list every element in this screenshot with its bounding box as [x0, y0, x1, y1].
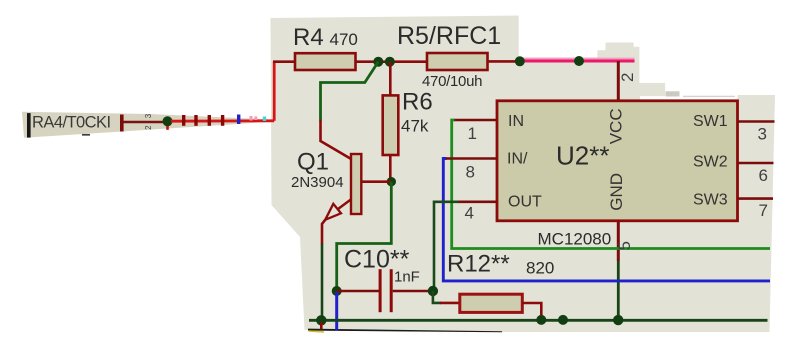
svg-text:Q1: Q1: [297, 149, 329, 176]
pin stub 6: [738, 162, 774, 165]
white mask strip above IC top right: [640, 96, 738, 99]
svg-text:R12**: R12**: [447, 251, 510, 278]
wire green from node A to Q1 collector: [321, 62, 379, 121]
wire red to R12: [440, 302, 461, 305]
svg-text:2N3904: 2N3904: [291, 174, 344, 191]
resistor R4: [295, 53, 356, 70]
cyan wire stub tick: [263, 117, 266, 122]
capacitor C10 plate 1: [379, 269, 382, 312]
wire pink VCC net: [520, 60, 635, 63]
svg-text:SW3: SW3: [693, 192, 728, 209]
wire to R4 left: [273, 60, 296, 63]
schematic sheet background region: [271, 16, 776, 333]
pin stub 7: [738, 197, 774, 200]
ghost smudge remnants: [666, 92, 680, 97]
svg-text:820: 820: [526, 259, 554, 278]
svg-text:1nF: 1nF: [394, 269, 420, 286]
wire stub tick 3: [208, 115, 211, 126]
capacitor C10 plate 2: [390, 269, 393, 312]
pin stub 4: [458, 201, 497, 204]
svg-text:R4: R4: [293, 24, 324, 51]
svg-text:5: 5: [615, 241, 634, 250]
wire to R12 left: [433, 291, 441, 303]
sliver sheet wedge (left): [22, 112, 268, 138]
Q1 emitter arrow: [325, 204, 341, 220]
Q1 emitter line: [336, 199, 352, 211]
svg-text:3: 3: [144, 113, 153, 118]
svg-text:U2**: U2**: [556, 141, 609, 171]
node junction R12 bottom: [536, 315, 546, 325]
wire blue below C10 left: [335, 292, 338, 331]
wire pink highlight fringe: [520, 58, 635, 60]
wire bright red on sliver: [171, 119, 274, 122]
wire green GND down: [617, 261, 620, 320]
blue wire stub tick: [237, 115, 240, 125]
pink wire stub tick 2: [254, 117, 257, 121]
svg-text:R6: R6: [402, 89, 433, 116]
node junction on sliver: [163, 116, 173, 126]
wire dark red on sliver: [124, 121, 165, 124]
wire blue IN/ net: [443, 159, 770, 281]
wire R5 right: [488, 60, 520, 63]
bottom yellow tick: [309, 331, 325, 332]
svg-text:OUT: OUT: [508, 194, 542, 211]
svg-text:IN: IN: [508, 113, 524, 130]
bottom black edge line: [308, 329, 502, 333]
node junction GND bus: [613, 315, 623, 325]
wire ground bus bottom: [309, 319, 768, 322]
pin stub 3: [738, 120, 775, 123]
svg-text:MC12080: MC12080: [538, 230, 612, 249]
IC U2 body: [497, 101, 738, 221]
wire C10 left: [337, 290, 379, 293]
red stub below ground bus: [320, 322, 323, 329]
red stub below sliver node: [166, 126, 169, 130]
node junction base: [387, 177, 396, 186]
pin bar on PIC pin: [120, 115, 124, 132]
node junction on pink 2: [574, 56, 584, 66]
node junction C10 right: [428, 286, 438, 296]
svg-text:VCC: VCC: [607, 108, 626, 144]
svg-text:470/10uh: 470/10uh: [422, 73, 482, 90]
wire stub tick 4: [221, 115, 224, 126]
wire C10 right: [393, 290, 433, 293]
svg-text:SW2: SW2: [693, 154, 728, 171]
svg-text:RA4/T0CKI: RA4/T0CKI: [32, 114, 111, 132]
node junction C10 left: [332, 286, 342, 296]
pin label remnant dash: [82, 134, 90, 136]
node junction A: [373, 57, 383, 67]
resistor R5/RFC1: [427, 53, 488, 70]
Q1 base wire: [361, 180, 391, 183]
svg-text:7: 7: [759, 201, 768, 220]
Q1 emitter tail: [322, 220, 325, 245]
wire bright red vertical to R4: [273, 62, 276, 121]
pin stub 1: [455, 119, 498, 122]
node junction B: [385, 57, 395, 67]
svg-text:1: 1: [468, 124, 477, 143]
svg-text:SW1: SW1: [693, 113, 728, 130]
svg-text:2: 2: [144, 125, 153, 130]
svg-text:3: 3: [758, 125, 767, 144]
node junction emitter bottom: [316, 315, 326, 325]
svg-text:IN/: IN/: [507, 151, 528, 168]
svg-text:470: 470: [330, 30, 358, 49]
wire green IN net: [452, 120, 770, 249]
svg-text:GND: GND: [607, 173, 626, 211]
wire dark green OUT net: [434, 202, 459, 291]
svg-text:47k: 47k: [401, 117, 429, 136]
R6 bottom stub wire: [389, 155, 392, 182]
wire red collector: [321, 120, 353, 160]
resistor R12: [460, 294, 523, 312]
node junction on pink 1: [515, 56, 525, 66]
transistor Q1 base bar: [351, 154, 361, 214]
wire R12 right: [522, 303, 541, 320]
resistor R6: [383, 95, 399, 155]
PIC edge bar (left sliver): [27, 113, 31, 138]
GND pin stub: [617, 221, 620, 261]
wire green emitter down: [321, 244, 324, 320]
wire green base to C10: [337, 182, 392, 291]
node junction mid bus: [558, 315, 568, 325]
R6 top stub wire: [389, 62, 392, 96]
pin stub 8: [446, 157, 497, 160]
svg-text:2: 2: [618, 73, 637, 82]
wire VCC pin 2 vertical: [617, 61, 620, 101]
svg-text:R5/RFC1: R5/RFC1: [397, 22, 501, 50]
wire stub tick 1: [182, 115, 185, 126]
wire stub tick 2: [194, 115, 197, 126]
pink wire stub tick 1: [250, 116, 253, 121]
wire R4 right to R5: [356, 60, 429, 63]
svg-text:6: 6: [759, 166, 768, 185]
svg-text:4: 4: [465, 204, 474, 223]
svg-text:8: 8: [466, 163, 475, 182]
